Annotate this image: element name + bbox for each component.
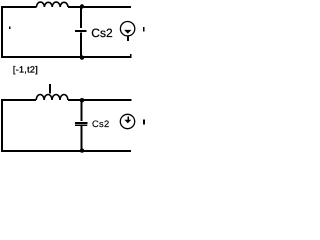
svg-text:Cs2: Cs2 <box>92 118 109 129</box>
svg-text:Cs2: Cs2 <box>91 26 113 40</box>
svg-text:[-1,t2]: [-1,t2] <box>13 64 38 74</box>
